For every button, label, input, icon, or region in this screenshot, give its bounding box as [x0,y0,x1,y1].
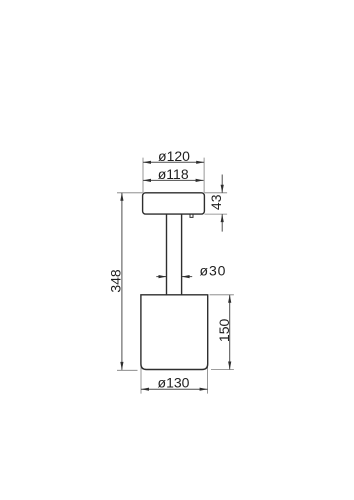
svg-text:ø118: ø118 [158,166,189,182]
svg-text:43: 43 [208,194,224,210]
svg-text:ø130: ø130 [158,375,190,391]
svg-text:150: 150 [216,319,232,343]
svg-text:ø30: ø30 [200,262,227,278]
svg-text:ø120: ø120 [158,148,190,164]
svg-text:348: 348 [108,269,124,293]
